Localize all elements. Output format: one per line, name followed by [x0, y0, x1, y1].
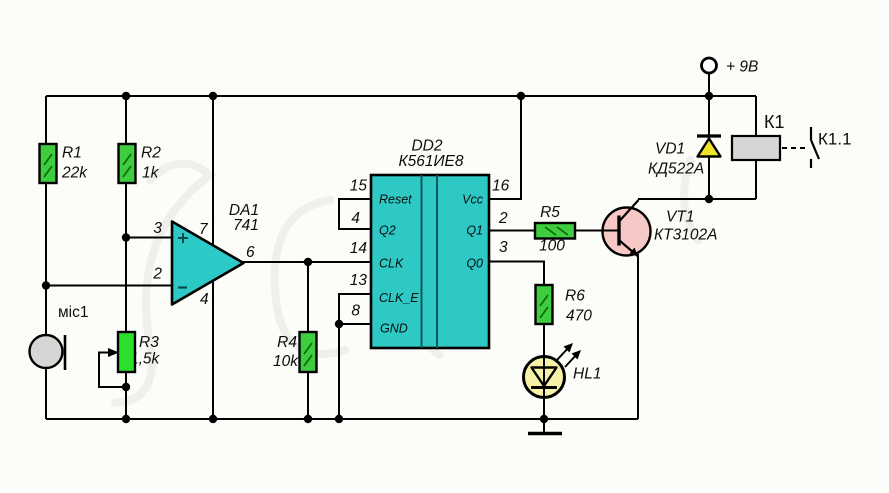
- svg-text:HL1: HL1: [573, 366, 601, 383]
- svg-text:К1.1: К1.1: [818, 130, 852, 149]
- svg-text:16: 16: [492, 178, 510, 195]
- svg-text:1k: 1k: [142, 165, 160, 182]
- svg-text:3: 3: [153, 220, 162, 237]
- svg-text:R4: R4: [277, 334, 297, 351]
- wire: relay K1 top lead: [755, 96, 757, 136]
- wire: top supply rail: [46, 95, 756, 97]
- svg-text:К1: К1: [764, 112, 785, 132]
- wire: R3 wiper link: [99, 353, 126, 388]
- svg-text:2: 2: [498, 210, 508, 227]
- svg-text:14: 14: [350, 240, 368, 257]
- svg-text:CLK: CLK: [379, 257, 404, 271]
- node: rail / R3: [122, 415, 130, 423]
- node: rail / DD2 GND: [335, 415, 343, 423]
- svg-text:R6: R6: [565, 288, 585, 305]
- svg-text:4: 4: [351, 210, 360, 227]
- wire: bottom ground rail: [46, 418, 638, 420]
- node: output / R4: [304, 258, 312, 266]
- svg-text:741: 741: [233, 217, 259, 234]
- transistor VT1 КТ3102А: [601, 200, 717, 257]
- wire: DD2 pin13-pin8 bracket: [339, 294, 371, 324]
- node: rail / LED-ground: [540, 415, 548, 423]
- svg-text:DD2: DD2: [411, 138, 442, 155]
- wire: op-amp pin7 supply: [212, 96, 214, 248]
- resistor R4: [273, 332, 317, 372]
- dashed actuation link: [782, 147, 808, 149]
- node: top rail / +9V: [705, 92, 713, 100]
- svg-text:R1: R1: [62, 145, 82, 162]
- node: R3 wiper: [122, 383, 130, 391]
- wire: VT1 collector horizontal: [638, 198, 756, 200]
- wire: op-amp output to DD2 CLK: [242, 261, 371, 263]
- svg-text:10k: 10k: [273, 353, 299, 370]
- emitter diagonal: [620, 241, 638, 257]
- svg-text:К561ИЕ8: К561ИЕ8: [398, 153, 463, 170]
- svg-text:Q1: Q1: [466, 224, 483, 238]
- wire: DD2 Vcc to top rail: [489, 96, 521, 199]
- svg-text:VD1: VD1: [655, 141, 685, 158]
- wire: R2/R3 vertical column: [125, 96, 127, 419]
- svg-text:GND: GND: [380, 322, 408, 336]
- wire: op-amp pin2 input: [46, 285, 172, 287]
- svg-text:470: 470: [566, 308, 592, 325]
- LED HL1: [524, 343, 602, 398]
- wire: wiper arrowhead: [108, 348, 119, 357]
- op-amp DA1: [172, 202, 259, 305]
- svg-text:15: 15: [350, 178, 368, 195]
- +9V supply terminal: [702, 58, 759, 76]
- svg-text:13: 13: [350, 272, 368, 289]
- node: VD1 / relay / collector: [705, 195, 713, 203]
- node: rail / R4: [304, 415, 312, 423]
- node: top rail / Vcc: [517, 92, 525, 100]
- wire: VT1 emitter vertical: [637, 254, 639, 419]
- wire through LED: [543, 357, 545, 397]
- svg-text:CLK_E: CLK_E: [379, 291, 419, 305]
- light arrow 1: [557, 346, 570, 360]
- svg-text:R5: R5: [540, 204, 560, 221]
- base bar: [617, 216, 620, 246]
- node: bracket GND join: [335, 320, 343, 328]
- base lead inside circle: [601, 230, 619, 232]
- svg-text:22k: 22k: [61, 165, 88, 182]
- svg-text:100: 100: [539, 238, 565, 255]
- resistor R2: [119, 144, 162, 183]
- wire: DD2 Q1 to R5 to VT1 base: [489, 230, 619, 232]
- svg-text:8: 8: [351, 303, 360, 320]
- svg-text:КТ3102А: КТ3102А: [654, 227, 717, 244]
- svg-text:КД522А: КД522А: [648, 161, 704, 178]
- svg-text:R2: R2: [141, 145, 161, 162]
- watermark: [115, 160, 698, 403]
- relay K1 coil: [732, 112, 785, 160]
- resistor R1: [40, 144, 89, 183]
- svg-text:6: 6: [246, 244, 255, 261]
- svg-text:Q2: Q2: [379, 224, 396, 238]
- svg-text:2: 2: [152, 266, 162, 283]
- svg-text:міс1: міс1: [58, 304, 88, 321]
- wire: op-amp pin3 input: [126, 237, 172, 239]
- svg-text:+ 9В: + 9В: [726, 59, 758, 76]
- emitter arrowhead: [630, 248, 639, 257]
- wire: DD2 GND down to rail: [338, 324, 340, 419]
- wire: DD2 pin15-pin4 feedback bracket: [339, 199, 371, 229]
- collector diagonal: [620, 200, 639, 221]
- microphone міс1: [30, 304, 89, 370]
- light arrow 2: [565, 353, 578, 367]
- wire: VD1 vertical: [708, 96, 710, 199]
- node: pin3 branch: [122, 233, 130, 241]
- node: pin2 branch: [42, 281, 50, 289]
- wire: op-amp pin4 to ground rail: [212, 280, 214, 419]
- ground symbol: [528, 419, 562, 434]
- svg-text:7: 7: [199, 221, 209, 238]
- wire: DD2 Q0 to R6 column: [489, 262, 544, 420]
- svg-text:Q0: Q0: [466, 257, 483, 271]
- wire: R4 branch: [307, 262, 309, 419]
- svg-text:Reset: Reset: [379, 193, 412, 207]
- svg-text:4: 4: [200, 291, 209, 308]
- svg-text:VT1: VT1: [666, 209, 694, 226]
- wire: +9V terminal lead: [708, 73, 710, 96]
- svg-text:3: 3: [499, 239, 508, 256]
- wire: relay K1 bottom lead: [755, 160, 757, 199]
- IC DD2 К561ИЕ8: [371, 138, 489, 349]
- diode VD1 КД522А: [648, 136, 721, 178]
- wire: left vertical (R1 / mic branch): [45, 96, 47, 419]
- resistor R6: [536, 285, 593, 325]
- relay contact K1.1: [782, 127, 852, 168]
- node: top rail / R2: [122, 92, 130, 100]
- node: top rail / pin7: [209, 92, 217, 100]
- node: rail / pin4: [209, 415, 217, 423]
- svg-text:Vcc: Vcc: [462, 193, 484, 207]
- resistor R5: [535, 204, 575, 255]
- svg-text:R3: R3: [139, 334, 159, 351]
